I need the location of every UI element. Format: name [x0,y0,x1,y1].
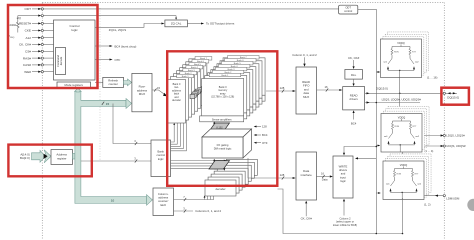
address bus branch to mode registers (teal up arrow) [75,88,82,92]
wire row MUX to bank row latches, width 15 [152,90,166,95]
svg-text:Sense amplifiers: Sense amplifiers [212,118,233,122]
svg-text:ZQ CAL: ZQ CAL [171,22,182,26]
svg-text:128: 128 [280,173,285,177]
bank 4 column decoder [217,168,248,184]
bank 6 row-address latch and decoder [186,62,204,106]
svg-text:Data: Data [322,178,328,182]
bank 7 sense amplifiers bar [221,95,265,101]
svg-text:240Ω: 240Ω [10,23,17,27]
bank 3 sense amplifiers bar [209,107,253,113]
svg-text:RAS#: RAS# [23,56,31,60]
svg-text:decode: decode [59,56,63,65]
bank 6 sense amplifiers bar [218,98,262,104]
svg-text:10: 10 [111,199,115,203]
wire CK to DLL [353,60,355,67]
bank 3 wordline bus 16,384 [194,90,199,94]
pin WE# [24,70,53,74]
pin ODT [24,7,338,11]
svg-text:Column 2: Column 2 [339,216,351,220]
bank 7 wordline bus 16,384 [199,85,204,89]
svg-text:register: register [57,157,67,161]
bank 1 wordline bus 16,384 [191,93,196,97]
bank 7 label (latch) [195,57,212,61]
column address counter/latch block [153,188,174,216]
svg-text:DLL: DLL [351,73,357,77]
signal flag BC4 into I/O gating [255,134,261,136]
wire ZQ CAL to ODT/output drivers [187,23,201,25]
bank 4 wordline bus 16,384 [195,89,200,93]
bank 1 sense amplifiers bar [203,113,247,119]
control logic U-CTRL [54,20,96,80]
bank 1 label (memory) [209,73,241,77]
svg-text:decoder: decoder [215,187,225,191]
ZQ CAL block [165,20,188,27]
svg-text:Bank 1: Bank 1 [182,76,190,78]
svg-text:15: 15 [106,102,110,106]
svg-text:LDM/UDM: LDM/UDM [446,197,460,201]
svg-text:interface: interface [301,173,312,177]
svg-text:(32,768 x 128 x 128): (32,768 x 128 x 128) [211,96,234,99]
data interface block [296,152,317,200]
wires bank control to column decoders [171,160,227,170]
bank 6 label (memory) [225,59,257,63]
svg-text:LDQS, LDQS#: LDQS, LDQS# [446,134,465,138]
bank 6 column decoder [223,162,254,178]
wire ZQCL ZQCS to ZQ CAL [95,24,161,28]
bank 4 memory array [214,67,256,104]
svg-text:CKE: CKE [25,29,31,33]
READ drivers block [343,87,365,110]
DM receivers U-DM (x2 stack) [390,154,431,193]
bank 2 row-address latch and decoder [174,74,192,118]
signal flag BC4 (burst chop) [95,45,110,47]
bank 3 label (latch) [183,68,200,72]
wire READ drivers to DQS, LDQS UDQS [365,102,420,104]
READ FIFO and data MUX block [296,67,317,114]
svg-text:logic: logic [158,157,164,161]
svg-text:MUX: MUX [139,92,145,96]
annotation box 1 (control/command inputs) [8,5,98,88]
wires bank control to row-address latches [171,111,188,151]
svg-text:BC4 (burst chop): BC4 (burst chop) [115,44,137,48]
bank 3 column decoder [214,171,245,187]
pin A12 [25,36,53,40]
svg-text:128: 128 [262,125,267,129]
pin ZQ [17,15,177,20]
svg-text:3: 3 [134,139,136,143]
svg-text:ZQCL, ZQCS: ZQCL, ZQCS [109,28,126,32]
annotation box 2 (memory bank arrays) [167,51,277,186]
svg-text:ODT: ODT [345,6,351,10]
chip die boundary (dashed outline) [42,2,444,4]
ODT control block [339,5,358,14]
pin LDM UDM [424,195,444,197]
inner dotted divider line [99,8,101,160]
svg-text:DM mask logic: DM mask logic [214,147,232,151]
wire DM write-mask path [278,189,403,234]
svg-text:CK, CK#: CK, CK# [301,216,313,220]
pin CS# [25,49,54,53]
svg-text:To ODT/output drivers: To ODT/output drivers [206,22,235,26]
bank 0 row-address latch and decoder [168,80,186,124]
wires column counter to column decoders, width 7 [174,187,215,202]
bank 6 memory array [220,61,262,98]
svg-text:WRITE: WRITE [339,165,348,169]
svg-text:Command: Command [56,54,60,67]
svg-text:decoder: decoder [172,99,181,102]
bank 3 label (memory) [215,67,247,71]
wire ODT control to output drivers [358,9,377,193]
svg-text:(1, 2): (1, 2) [424,202,431,206]
wire control to refresh counter [95,81,103,83]
bank 5 label (latch) [189,62,206,65]
svg-text:CAS#: CAS# [23,63,31,67]
bank 6 wordline bus 16,384 [198,86,203,90]
bank 7 row-address latch and decoder [189,59,207,103]
annotation box 4 (DQ[15:0] pin) [441,88,469,105]
wire DQ data, DQ[15:0] [365,92,445,94]
DQ output drivers U-DQ (x16 stack) [388,32,429,70]
bank 2 label (latch) [180,71,197,75]
bank 2 memory array [208,73,250,110]
address register block [51,150,73,165]
svg-text:3: 3 [183,207,185,211]
wire DQ stack chain [399,78,401,114]
WRITE drivers and input logic block [333,156,353,198]
svg-text:CK, CK#: CK, CK# [348,56,360,60]
svg-text:RESET#: RESET# [19,22,31,26]
svg-text:OTF: OTF [115,58,121,62]
pin CKE [25,29,54,33]
pin RAS# [23,56,54,60]
bank 4 row-address latch and decoder [180,68,198,112]
bank 2 sense amplifiers bar [206,110,250,116]
pin UDQS UDQS# [424,145,444,147]
wire DLL to READ drivers [353,79,355,84]
bank 7 label (memory) [228,56,259,60]
svg-text:I/O gating: I/O gating [217,143,229,147]
svg-text:control: control [344,9,352,13]
bank 4 label (memory) [218,64,250,68]
svg-text:logic: logic [71,28,78,32]
svg-text:lower nibble for BC8): lower nibble for BC8) [333,223,357,227]
bank control logic block [151,140,171,177]
bank 1 column decoder [208,177,239,193]
signal flag BC4 into READ drivers [353,113,355,120]
svg-text:ZQ: ZQ [17,16,22,20]
svg-text:latch: latch [160,203,166,207]
I/O gating and DM mask logic block (3D) [202,129,252,137]
address bus trunk (teal) [73,153,76,159]
bank 0 sense amplifiers bar [200,116,244,122]
svg-text:16: 16 [324,85,328,89]
pin CK, CK# [19,43,54,47]
wire mode/control to bank control, width 3 [113,104,151,144]
wire address to bank control, width 3 [81,160,151,162]
address bus branch to row MUX, width 15 (teal arrow) [126,99,132,109]
bank 6 label (latch) [192,60,209,64]
bus entry marker at die boundary [44,154,48,159]
pin DQ[15:0] (bidirectional) [443,92,445,94]
svg-text:BC4: BC4 [351,122,357,126]
bank 3 memory array [211,70,253,107]
pin CAS# [23,63,54,67]
svg-text:CS#: CS# [25,49,31,53]
svg-text:DQ[15:0]: DQ[15:0] [447,96,459,100]
svg-text:Columns 0, 1, and 2: Columns 0, 1, and 2 [195,209,221,213]
bank 2 wordline bus 16,384 [193,92,198,96]
address input bus (teal block arrow) [32,150,46,162]
bank 7 column decoder [226,159,257,175]
signal flag 128 into I/O gating [255,126,261,128]
bank 3 row-address latch and decoder [177,71,195,115]
svg-text:logic: logic [340,179,346,183]
svg-text:and: and [341,172,346,176]
command decode block [56,48,66,75]
svg-text:DQ[15:0]: DQ[15:0] [376,87,388,91]
bank 1 memory array [205,76,247,113]
bank 2 label (memory) [212,70,244,74]
svg-text:input: input [340,175,346,179]
svg-text:A12: A12 [25,36,31,40]
svg-text:drivers: drivers [349,97,358,101]
pin RESET# [19,22,54,26]
svg-text:128: 128 [280,86,285,90]
bank 4 label (latch) [186,65,203,69]
svg-text:OTF: OTF [262,141,268,145]
bank 0 column decoder [205,180,236,196]
svg-text:16: 16 [321,172,324,176]
bank 0 memory array [202,79,244,116]
bus 8,192 I/O gating to column decoder (slab) [209,161,230,169]
svg-text:15: 15 [157,86,160,90]
wire DQS to WRITE drivers [357,157,377,159]
bank 5 column decoder [220,165,251,181]
svg-text:WE#: WE# [24,70,31,74]
resistor RZQ 240 ohm [10,16,20,33]
bank 7 memory array [223,58,265,95]
wire columns 0 1 2, width 3 [174,210,194,212]
annotation box 3 (address register) [8,145,91,177]
svg-text:VSSQ: VSSQ [8,34,14,39]
DLL block [345,70,363,80]
svg-text:ODT: ODT [24,7,31,11]
refresh counter block [103,77,124,87]
bank 5 memory array [217,64,259,101]
wire data interface to WRITE, width 16 [317,176,330,178]
svg-text:Column 0, 1, and 2: Column 0, 1, and 2 [292,53,317,57]
row address MUX block [132,73,152,111]
svg-text:BA[2:0]: BA[2:0] [20,156,30,160]
svg-text:7: 7 [183,195,185,199]
bus refresh counter to row address MUX (teal arrow) [124,79,132,86]
signal flag OTF into I/O gating [255,142,261,144]
bank 5 row-address latch and decoder [183,65,201,109]
bank 0 wordline bus 16,384 [190,95,195,99]
pin LDQS LDQS# [424,135,444,137]
wire READ FIFO to READ drivers, width 16 [317,89,340,91]
svg-text:counter: counter [109,82,118,86]
svg-text:Mode registers: Mode registers [64,83,83,87]
bank 5 sense amplifiers bar [215,101,259,107]
svg-text:(1 ... 16): (1 ... 16) [427,75,437,79]
bank 1 row-address latch and decoder [171,77,189,121]
bus 8,192 sense to I/O gating (slab) [209,123,230,131]
bank 5 wordline bus 16,384 [197,88,202,92]
bank 4 sense amplifiers bar [212,104,256,110]
svg-text:CK, CK#: CK, CK# [19,43,31,47]
svg-text:BC4: BC4 [262,133,268,137]
svg-text:(1 ... 4): (1 ... 4) [425,149,434,153]
wire I/O gating to data interface, width 128 [248,158,293,178]
svg-text:MUX: MUX [303,95,309,99]
svg-text:(select upper or: (select upper or [336,220,354,224]
svg-text:LDQS, LDQS#, UDQS, UDQS#: LDQS, LDQS#, UDQS, UDQS# [382,97,422,101]
bank 5 label (memory) [221,61,253,64]
svg-text:3: 3 [134,157,136,161]
address bus branch to column counter, width 10 (teal arrow) [147,195,153,206]
signal flag OTF [95,59,110,61]
DQS drivers U-DQS (x4 stack) [388,106,429,145]
bank 2 column decoder [211,174,242,190]
wire DQ receivers to WRITE drivers [344,147,376,153]
svg-text:Bank 1: Bank 1 [222,75,230,77]
bank 1 label (latch) [177,74,194,78]
wire array to READ FIFO, width 128 [266,90,293,92]
svg-text:drivers: drivers [339,168,348,172]
UI overlay circle (page widget) [467,199,474,211]
mode registers block [57,82,91,88]
svg-text:UDQS, UDQS#: UDQS, UDQS# [446,144,466,148]
